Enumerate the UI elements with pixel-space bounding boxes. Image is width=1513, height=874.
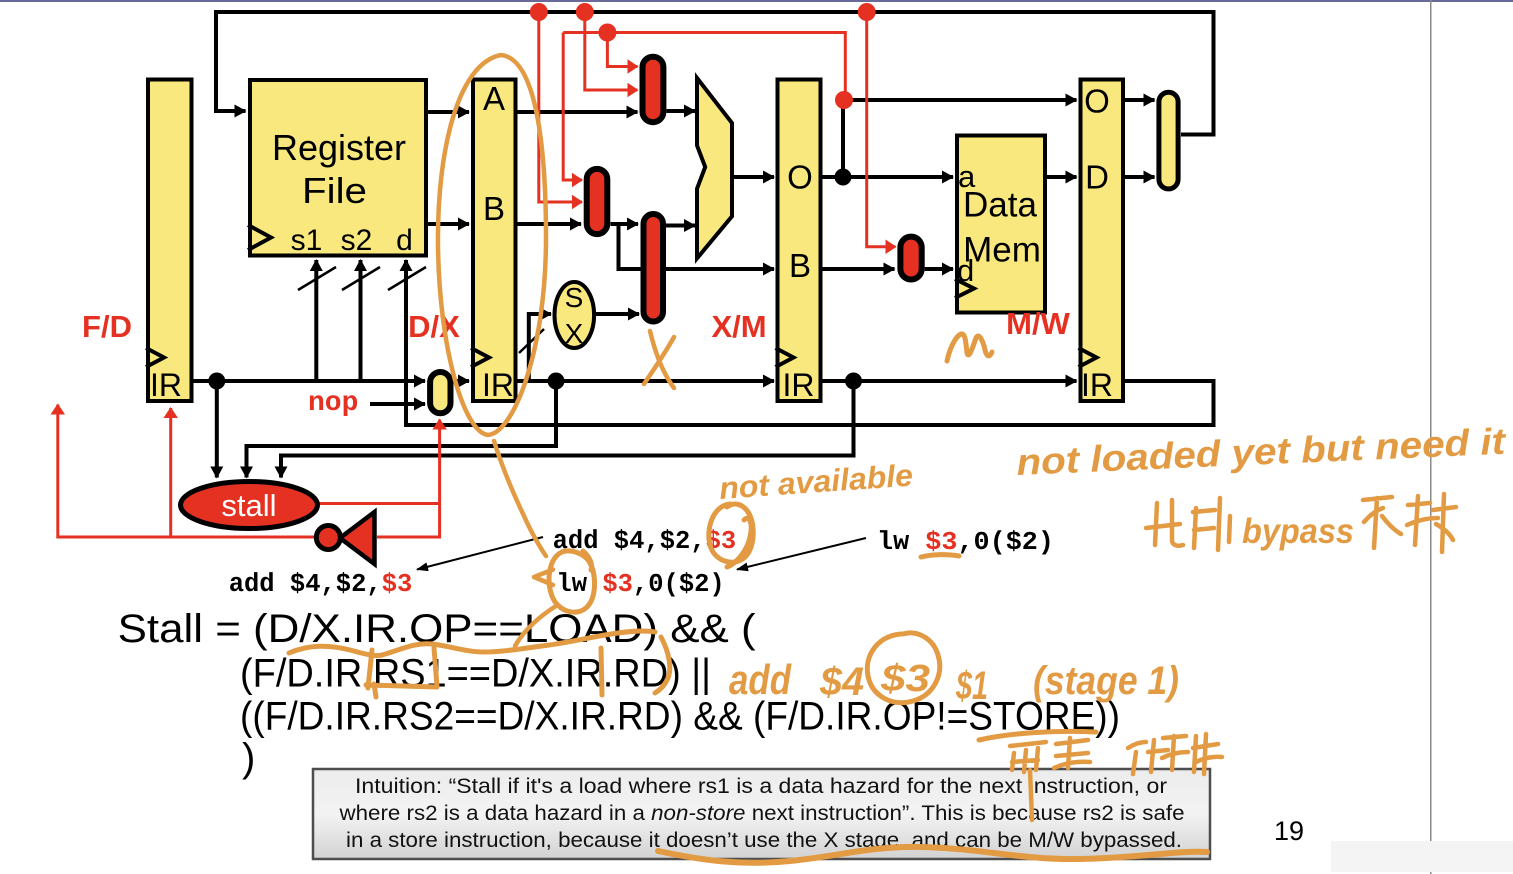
wire RegFile B out to D/X (428, 222, 469, 226)
wire B branch to X/M B latch (619, 224, 775, 269)
stage labels (82, 306, 1071, 344)
svg-text:IR: IR (150, 367, 182, 403)
node F/D.IR tap (208, 373, 225, 390)
slide right vertical line (1430, 0, 1432, 874)
hw X mark (644, 331, 674, 388)
wire s1 input (314, 260, 318, 381)
register M/W (1081, 80, 1124, 402)
svg-text:F/D: F/D (82, 309, 132, 344)
wire F/D IR to nop mux (194, 379, 426, 383)
svg-text:IR: IR (783, 367, 815, 403)
svg-text:d: d (957, 253, 974, 288)
svg-text:stall: stall (221, 488, 276, 523)
clock Data Mem (955, 279, 974, 298)
annotation arrow to lw1 (737, 538, 866, 570)
ALU src2 mux (644, 214, 664, 322)
wire D/X IR down to stall (247, 381, 557, 478)
annotation arrow to add1 (417, 537, 543, 570)
wire RegFile A out to D/X (428, 110, 469, 114)
svg-text:O: O (1084, 83, 1110, 120)
svg-text:B: B (483, 190, 505, 227)
svg-text:a: a (958, 159, 976, 194)
bus-width slashes (298, 267, 544, 353)
wire S/X out to src2 mux (596, 312, 639, 316)
svg-text:O: O (787, 159, 813, 196)
hw zh buhaoshi (after bypass) (1363, 494, 1456, 552)
slash d (388, 267, 426, 290)
wire inverter out to PC enable (58, 405, 316, 538)
hw RD tick (601, 648, 602, 695)
wire X/M.O bypass source (563, 33, 845, 99)
wire X bypass to B mux (563, 33, 582, 181)
svg-text:S: S (565, 282, 584, 313)
svg-text:): ) (242, 736, 255, 780)
svg-text:Mem: Mem (963, 231, 1041, 270)
svg-text:add: add (729, 656, 792, 703)
wire M/W D to out mux (1125, 175, 1155, 179)
svg-text:A: A (483, 80, 505, 117)
hw circle around lw (549, 551, 594, 612)
store data bypass mux (900, 237, 921, 280)
slide top border (0, 0, 1513, 2)
hw paren mark (655, 637, 670, 693)
slash s1 (298, 267, 336, 290)
wire X/M O to Data Mem a (823, 175, 954, 179)
inverter Q1 (340, 512, 375, 564)
clock chevrons (146, 225, 1097, 367)
wire M/W bypass to store mux (867, 12, 896, 247)
svg-text:Register: Register (272, 127, 406, 168)
slash s2 (342, 267, 380, 290)
svg-text:not loaded yet but need it: not loaded yet but need it (1016, 421, 1508, 483)
hw ellipse around D/X (438, 55, 546, 435)
svg-text:IR: IR (482, 367, 514, 403)
bypass mux A (643, 57, 664, 123)
svg-text:s2: s2 (341, 224, 373, 257)
wire X/M O up to M/W O (843, 100, 1077, 177)
svg-text:nop: nop (308, 388, 358, 419)
node X/M.O tap (835, 169, 852, 186)
wire stall to inverter (377, 504, 440, 538)
node X/M.IR tap (845, 373, 862, 390)
wire src2 mux to ALU (666, 224, 696, 228)
register X/M (778, 80, 821, 402)
svg-text:lw $3,0($2): lw $3,0($2) (877, 528, 1054, 557)
svg-text:(stage 1): (stage 1) (1033, 659, 1179, 703)
wire s2 input (359, 260, 363, 381)
bypass mux B (587, 169, 608, 234)
writeback out mux pill (1159, 92, 1178, 189)
svg-text:File: File (302, 170, 367, 211)
clock X/M (776, 348, 794, 367)
svg-text:Intuition: “Stall if it's a lo: Intuition: “Stall if it's a load where r… (355, 774, 1167, 798)
svg-text:$3: $3 (880, 658, 930, 700)
wire M/W bypass to B mux (539, 12, 582, 202)
svg-text:s1: s1 (291, 224, 323, 257)
svg-text:d: d (396, 224, 413, 257)
hw zh phrase near STORE (1010, 734, 1222, 820)
wire X/M IR to M/W IR (823, 379, 1077, 383)
wire nop constant in (370, 402, 425, 406)
wire A mux out to ALU (667, 109, 696, 113)
svg-text:$4: $4 (819, 660, 864, 704)
hw circle around $3 (add2) (709, 504, 753, 567)
wire X/M B to store mux (823, 267, 895, 271)
wire Data Mem out to M/W D (1047, 175, 1077, 179)
svg-text:X: X (565, 318, 584, 349)
wire inverter out to F/D enable (169, 408, 172, 537)
clock M/W (1079, 348, 1097, 367)
hw STORE underline (979, 731, 1096, 740)
S/X sign extender (555, 282, 595, 348)
wire F/D IR down to stall (215, 381, 219, 478)
clock RegFile (248, 225, 271, 250)
slash S/X (519, 329, 544, 353)
svg-text:((F/D.IR.RS2==D/X.IR.RD) && (F: ((F/D.IR.RS2==D/X.IR.RD) && (F/D.IR.OP!=… (240, 695, 1120, 739)
hw circle around hw $3 (867, 633, 939, 703)
wire IR to S/X (529, 314, 551, 381)
svg-text:X/M: X/M (711, 309, 766, 344)
wire X bypass to A mux (607, 33, 637, 67)
svg-text:(F/D.IR.RS1==D/X.IR.RD) ||: (F/D.IR.RS1==D/X.IR.RD) || (240, 652, 711, 696)
clock F/D (146, 348, 164, 367)
hw m mark (947, 334, 992, 361)
inverter bubble (316, 526, 340, 550)
svg-text:where rs2 is a data hazard in: where rs2 is a data hazard in a non-stor… (338, 801, 1184, 825)
hw lw circle tail (515, 606, 556, 646)
hw curve to lw (494, 441, 546, 556)
stall oval (181, 482, 318, 529)
svg-text:not available: not available (718, 458, 914, 506)
wire M/W bypass to A mux (585, 12, 638, 90)
wire D/X A out to bypass mux (518, 110, 638, 114)
svg-text:IR: IR (1081, 367, 1113, 403)
wire ALU out to X/M O (732, 175, 775, 179)
wire D/X IR to X/M IR (518, 379, 775, 383)
wire M/W O to out mux (1125, 98, 1155, 102)
wire nop mux to D/X IR (454, 379, 470, 383)
svg-text:D: D (1085, 159, 1109, 196)
node D/X.IR tap (548, 373, 565, 390)
nop mux pill (430, 372, 450, 413)
hw underline $3 (lw2) (921, 555, 959, 557)
Data Mem (957, 136, 1045, 313)
wire stall to nop mux (316, 420, 440, 504)
node M/W bypass tap 3 (858, 3, 876, 21)
wire store mux to Data Mem d (925, 267, 953, 271)
svg-text:bypass: bypass (1242, 512, 1354, 551)
node X bypass tap (598, 24, 616, 42)
node X/M.O red tap (835, 91, 853, 109)
Register File (250, 80, 426, 256)
faint bottom-right panel (1331, 841, 1513, 872)
wire X/M IR down to stall (281, 381, 854, 478)
svg-text:$1: $1 (955, 664, 988, 708)
svg-text:D/X: D/X (408, 309, 460, 344)
wire B mux out to src2 mux (611, 222, 639, 226)
svg-text:19: 19 (1274, 816, 1304, 846)
wire M/W IR writeback to RegFile d (406, 260, 1214, 425)
hw eq swoosh (289, 631, 655, 656)
svg-text:in a store instruction, becaus: in a store instruction, because it doesn… (346, 828, 1182, 852)
wire D/X B out to bypass mux (518, 222, 582, 226)
svg-text:B: B (789, 247, 811, 284)
svg-text:add $4,$2,$3: add $4,$2,$3 (229, 570, 413, 599)
svg-text:lw $3,0($2): lw $3,0($2) (556, 570, 724, 599)
hw wavy underline below box (658, 847, 1207, 863)
hw handwritten words (latin) (718, 421, 1508, 708)
ALU (697, 78, 732, 258)
hw zh cichi (before bypass) (1146, 498, 1230, 550)
svg-text:M/W: M/W (1006, 306, 1070, 341)
register D/X (473, 80, 516, 402)
node M/W bypass tap 2 (576, 3, 594, 21)
clock D/X (471, 348, 489, 367)
register F/D (148, 80, 192, 402)
hw RS1 box (366, 648, 437, 697)
wire writeback top loop (216, 12, 1214, 135)
node M/W bypass tap 1 (530, 3, 548, 21)
